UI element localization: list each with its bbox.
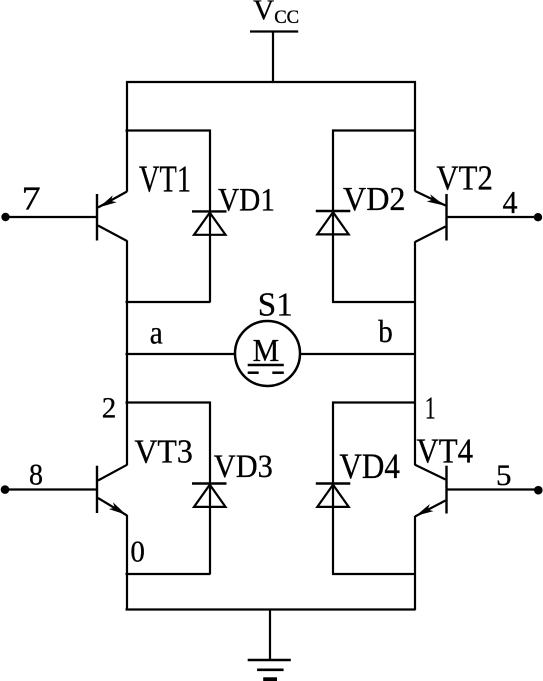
wire upper-right box bottom [332,301,416,303]
svg-text:1: 1 [425,390,436,426]
wire node 2 rail [126,401,211,403]
svg-text:7: 7 [22,181,41,218]
svg-text:0: 0 [130,534,145,569]
wire pin 8 lead [5,488,97,490]
diode VD3 [192,484,227,507]
wire upper-left inner rail [126,129,211,131]
wire Vcc drop [272,32,274,82]
node pin 4 terminal dot [534,213,542,221]
wire left column lower [126,515,128,610]
svg-text:b: b [378,313,393,349]
svg-text:8: 8 [29,457,43,492]
svg-text:V: V [253,0,274,27]
wire VD4 column [332,402,334,575]
wire motor rail [126,353,416,355]
svg-text:VD3: VD3 [214,449,273,485]
wire upper-right inner rail [332,129,416,131]
wire right column mid [414,242,416,466]
svg-text:VD4: VD4 [339,446,400,486]
wire top rail [126,81,416,83]
svg-text:CC: CC [274,7,299,28]
wire pin 4 lead [447,216,538,218]
diode VD4 [316,484,351,507]
wire right column upper [414,81,416,191]
transistor VT4 [415,465,447,517]
transistor VT1 [97,192,127,242]
wire left column upper [126,81,128,192]
wire node 1 rail [332,401,416,403]
wire bottom rail [126,608,416,610]
diode VD1 [192,211,227,234]
svg-text:VD2: VD2 [343,181,406,218]
svg-text:VT3: VT3 [134,434,193,471]
wire lower-left box bottom [126,573,211,575]
svg-text:VT4: VT4 [417,432,474,471]
wire pin 5 lead [447,488,538,490]
svg-text:M: M [253,332,280,368]
wire right column lower [414,516,416,610]
svg-text:a: a [150,316,163,352]
diode VD2 [316,211,351,234]
label Vcc [253,0,299,28]
svg-text:5: 5 [496,459,512,492]
Vcc supply bar [250,30,298,32]
wire left column mid [126,241,128,466]
svg-text:2: 2 [102,392,117,425]
node pin 7 terminal dot [1,213,9,221]
node pin 8 terminal dot [1,485,10,494]
wire VD2 column [332,130,334,303]
ground [248,610,291,680]
wire VD1 column [209,130,211,303]
svg-text:VT1: VT1 [139,159,191,201]
wire upper-left box bottom [126,301,211,303]
wire lower-right box bottom [332,573,416,575]
motor S1 [235,321,300,386]
transistor VT2 [415,191,447,242]
wire VD3 column [209,402,211,575]
svg-text:S1: S1 [258,287,293,324]
node pin 5 terminal dot [534,486,543,495]
wire pin 7 lead [6,216,97,218]
svg-text:4: 4 [503,184,518,220]
transistor VT3 [97,465,127,516]
svg-text:VT2: VT2 [436,159,493,198]
svg-text:VD1: VD1 [218,182,275,218]
